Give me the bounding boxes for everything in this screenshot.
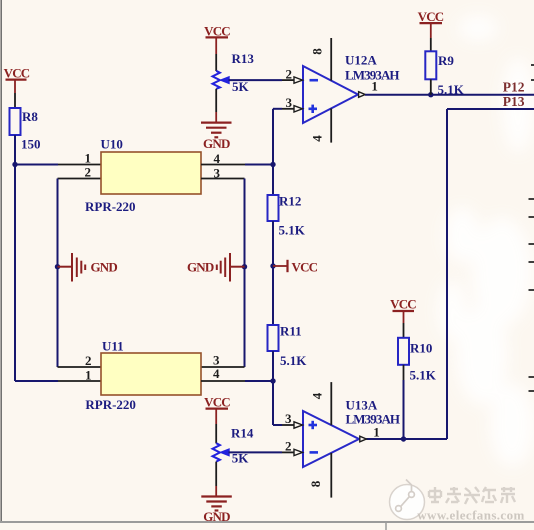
svg-text:R9: R9 bbox=[438, 53, 454, 68]
op-amp U13A bbox=[303, 398, 400, 468]
svg-text:2: 2 bbox=[85, 165, 92, 180]
svg-text:4: 4 bbox=[310, 392, 325, 399]
svg-text:1: 1 bbox=[85, 368, 92, 383]
svg-text:U13A: U13A bbox=[346, 398, 378, 413]
svg-text:2: 2 bbox=[285, 439, 292, 454]
svg-text:5.1K: 5.1K bbox=[280, 353, 307, 368]
node R9 junction bbox=[428, 92, 433, 97]
pin arrow U13A.1 output bbox=[360, 425, 380, 442]
wire R8 down left rail bbox=[14, 135, 16, 381]
potentiometer R14 bbox=[213, 426, 254, 462]
wire node A to U10 pin1 bbox=[15, 164, 101, 166]
svg-text:3: 3 bbox=[286, 95, 293, 110]
svg-text:4: 4 bbox=[309, 135, 324, 142]
power VCC (R9) bbox=[418, 9, 444, 38]
ground GND (R13) bbox=[201, 123, 232, 151]
wire U10 pin3 down to U11 pin3 bbox=[201, 179, 245, 368]
optocoupler U10 bbox=[101, 137, 202, 195]
svg-text:VCC: VCC bbox=[418, 9, 444, 24]
pin arrow U13A.2 bbox=[294, 449, 303, 455]
svg-text:VCC: VCC bbox=[204, 395, 230, 410]
ground GND right (sideways) bbox=[187, 253, 245, 282]
wire R14 wiper to U13A pin2 bbox=[229, 451, 294, 453]
resistor R11 bbox=[268, 324, 302, 352]
power VCC (R13) bbox=[204, 24, 230, 55]
svg-text:GND: GND bbox=[91, 260, 118, 275]
resistor R9 bbox=[425, 51, 454, 79]
sheet frame bottom border bbox=[0, 521, 534, 523]
wire R14 to GND bbox=[215, 462, 217, 497]
svg-text:1: 1 bbox=[85, 151, 92, 166]
node A junction bbox=[12, 162, 17, 167]
sheet frame tick bbox=[385, 522, 387, 530]
pin arrow U12A.1 output bbox=[359, 79, 378, 98]
resistor R8 bbox=[10, 108, 39, 135]
svg-text:VCC: VCC bbox=[390, 297, 416, 312]
svg-text:VCC: VCC bbox=[4, 66, 30, 81]
wire VCC to R8 bbox=[14, 93, 16, 108]
wire U10 pin4 to mid rail bbox=[201, 164, 273, 166]
svg-text:U10: U10 bbox=[101, 137, 123, 152]
ground GND left (sideways) bbox=[58, 253, 118, 282]
pin U13A.8 bbox=[308, 453, 331, 498]
node GND-right junction bbox=[242, 264, 247, 269]
svg-text:www.elecfans.com: www.elecfans.com bbox=[417, 508, 525, 523]
wire R12 to R11 bbox=[272, 221, 274, 325]
svg-text:1: 1 bbox=[371, 79, 378, 94]
sheet frame left border bbox=[0, 0, 2, 522]
svg-text:VCC: VCC bbox=[292, 259, 318, 274]
svg-text:2: 2 bbox=[286, 67, 293, 82]
svg-text:R13: R13 bbox=[232, 51, 255, 66]
svg-text:1: 1 bbox=[373, 425, 380, 440]
wire R10 to output node bbox=[403, 365, 405, 439]
watermark logo bbox=[390, 480, 425, 520]
svg-text:3: 3 bbox=[285, 411, 292, 426]
wire R13 to GND bbox=[215, 89, 217, 123]
wire R13 wiper to U12A pin2 bbox=[229, 79, 294, 81]
svg-text:5K: 5K bbox=[232, 79, 250, 94]
watermark blobs bbox=[438, 15, 534, 467]
pin U12A.4 bbox=[309, 108, 331, 142]
svg-text:R10: R10 bbox=[410, 341, 432, 356]
svg-text:5.1K: 5.1K bbox=[438, 82, 465, 97]
wire VCC to R13 bbox=[215, 54, 217, 71]
svg-text:U11: U11 bbox=[102, 339, 124, 354]
wire left rail to U11 pin1 bbox=[15, 380, 101, 382]
power VCC (R8 column) bbox=[4, 66, 30, 94]
svg-text:GND: GND bbox=[203, 136, 230, 151]
wire U12A output to P12 bbox=[365, 94, 534, 96]
node R10 junction bbox=[401, 436, 406, 441]
pin arrow U12A.3 bbox=[294, 106, 303, 112]
svg-text:R12: R12 bbox=[279, 194, 301, 209]
watermark text blocks bbox=[429, 487, 515, 504]
wire R11 down to U13A pin3 bbox=[272, 351, 274, 425]
wire P13 from U13A output bbox=[366, 109, 534, 439]
pin U13A.4 bbox=[310, 382, 332, 425]
svg-text:R14: R14 bbox=[231, 426, 254, 441]
svg-text:150: 150 bbox=[21, 137, 41, 152]
svg-text:GND: GND bbox=[187, 260, 214, 275]
svg-text:4: 4 bbox=[213, 366, 220, 381]
resistor R12 bbox=[268, 194, 302, 222]
optocoupler U11 bbox=[101, 339, 201, 396]
wire U13A pin3 horizontal bbox=[273, 424, 294, 426]
svg-text:P12: P12 bbox=[503, 80, 525, 95]
svg-text:5.1K: 5.1K bbox=[279, 223, 306, 238]
svg-text:8: 8 bbox=[308, 480, 323, 487]
node GND-left junction bbox=[55, 264, 60, 269]
pin U12A.8 bbox=[310, 38, 332, 81]
potentiometer R13 bbox=[213, 51, 255, 89]
svg-text:RPR-220: RPR-220 bbox=[85, 397, 136, 412]
wire U10 pin2 down to U11 pin2 bbox=[58, 179, 102, 368]
wire U12A pin3 horizontal bbox=[273, 108, 294, 110]
power VCC (R14) bbox=[204, 395, 230, 425]
wire VCC to R14 bbox=[215, 424, 217, 443]
wire U11 pin4 to mid rail bbox=[201, 380, 273, 382]
wire VCC to R9 bbox=[430, 38, 432, 51]
svg-text:GND: GND bbox=[203, 509, 230, 524]
svg-text:R11: R11 bbox=[280, 324, 302, 339]
svg-text:2: 2 bbox=[85, 353, 92, 368]
svg-text:U12A: U12A bbox=[345, 53, 377, 68]
resistor R10 bbox=[398, 338, 432, 365]
power VCC (R10) bbox=[390, 297, 416, 324]
pin arrow U12A.2 bbox=[294, 77, 303, 83]
power VCC (mid, sideways) bbox=[273, 259, 318, 274]
svg-text:VCC: VCC bbox=[204, 24, 230, 39]
wire VCC to R10 bbox=[403, 323, 405, 338]
pin arrow U13A.3 bbox=[294, 422, 303, 428]
svg-text:8: 8 bbox=[310, 48, 325, 55]
wire mid rail (U12A pin3 down to R12) bbox=[272, 109, 274, 195]
ground GND (R14) bbox=[201, 497, 232, 525]
svg-text:RPR-220: RPR-220 bbox=[85, 199, 136, 214]
svg-text:5.1K: 5.1K bbox=[410, 368, 437, 383]
svg-text:R8: R8 bbox=[22, 109, 38, 124]
node mid-top junction bbox=[270, 162, 275, 167]
wire R9 to output node bbox=[430, 79, 432, 94]
svg-text:P13: P13 bbox=[503, 94, 525, 109]
connector stubs right edge bbox=[529, 65, 534, 391]
node mid VCC junction bbox=[270, 263, 275, 268]
node mid-bottom junction bbox=[270, 378, 275, 383]
op-amp U12A bbox=[303, 53, 399, 124]
